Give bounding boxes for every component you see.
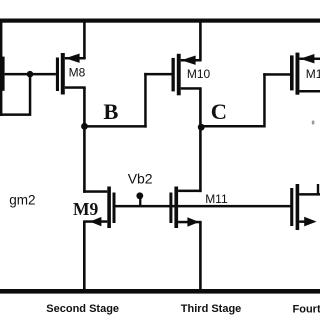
transistor M9 gate bar <box>113 193 116 224</box>
wire Vb2 stem <box>139 196 141 207</box>
wire M13 source horizontal <box>299 220 306 223</box>
wire node B horizontal right <box>85 125 147 128</box>
transistor M11 channel bar <box>174 187 178 229</box>
svg-text:M9: M9 <box>73 199 99 219</box>
transistor M12 gate bar (cropped at right) <box>290 55 294 90</box>
wire left edge vertical (cropped previous stage) <box>0 20 2 116</box>
wire M13 drain stub up (cropped node D) <box>317 184 319 195</box>
wire node A down (M7 drain connection) <box>29 74 32 113</box>
svg-text:M8: M8 <box>69 66 86 80</box>
wire node A to M8 gate <box>30 73 56 76</box>
svg-text:C: C <box>211 99 227 124</box>
wire M8 source horizontal <box>65 57 86 60</box>
node A junction dot <box>27 71 34 78</box>
svg-text:Third Stage: Third Stage <box>181 303 242 315</box>
wire M10 drain down to node C <box>199 88 202 127</box>
wire M8 drain horizontal <box>65 86 86 89</box>
node B junction dot <box>81 123 88 130</box>
label node C <box>211 99 227 124</box>
wire M9 source horizontal <box>83 220 107 223</box>
wire M7 gate to node A <box>5 73 30 76</box>
wire M9 drain up to node B <box>83 126 86 193</box>
label gm2 <box>9 193 35 208</box>
label M10 <box>187 67 211 81</box>
transistor M11 gate bar <box>169 193 172 224</box>
wire node B to M10 gate <box>144 73 171 76</box>
wire bias line Vb2 (M9 gate to M13 gate) <box>113 205 291 208</box>
transistor M10 gate bar <box>172 58 175 92</box>
svg-text:B: B <box>103 99 118 124</box>
M9 source arrow (NMOS, points out) <box>90 217 102 226</box>
M11 source arrow (NMOS) <box>187 217 199 226</box>
svg-text:Vb2: Vb2 <box>128 171 153 187</box>
label M8 <box>69 66 86 80</box>
node Vb2 dot <box>136 192 143 199</box>
wire bottom ground rail VSS <box>0 289 320 294</box>
transistor M13 gate bar <box>290 188 293 226</box>
wire M11 source horizontal <box>178 221 202 224</box>
wire M11 drain horizontal <box>178 190 202 193</box>
wire node C horizontal right <box>201 125 266 128</box>
label Third Stage <box>181 303 242 315</box>
wire M10 drain horizontal <box>181 87 202 90</box>
transistor M10 channel bar <box>177 54 181 96</box>
wire M10 source horizontal <box>181 59 202 62</box>
M13 source arrow (NMOS) <box>304 217 316 227</box>
svg-text:gm2: gm2 <box>9 193 35 208</box>
M12 source arrow (PMOS) <box>300 54 314 63</box>
node C junction dot <box>198 124 205 131</box>
wire top supply rail VDD <box>0 19 320 23</box>
wire M11 source down to VSS <box>199 222 202 290</box>
wire M8 drain down to node B <box>83 88 86 127</box>
label Second Stage <box>46 303 119 315</box>
label M11 <box>205 192 228 206</box>
transistor M7 channel bar (partial, cropped at left edge) <box>0 57 5 91</box>
transistor M9 channel bar (mirrored NMOS) <box>107 187 111 229</box>
svg-text:M11: M11 <box>205 192 228 206</box>
M8 source arrow (PMOS, points to channel) <box>65 54 79 63</box>
wire M9 source down to VSS <box>83 222 86 291</box>
wire M10 source up to VDD <box>199 21 202 60</box>
wire node B vertical up <box>144 73 147 128</box>
label M9 <box>73 199 99 219</box>
label M12 (clipped) <box>306 67 320 81</box>
wire M8 source up to VDD <box>83 21 86 58</box>
wire M13 drain horizontal <box>299 193 320 196</box>
svg-text:Fourth Stage: Fourth Stage <box>293 304 320 316</box>
wire node A leftward to edge <box>0 113 31 116</box>
transistor M8 channel bar <box>61 53 65 95</box>
wire M12 drain horizontal to edge <box>299 90 320 93</box>
svg-text:Second Stage: Second Stage <box>46 303 119 315</box>
transistor M12 channel bar <box>296 53 300 95</box>
wire M12 source horizontal to edge <box>299 58 320 61</box>
wire node C to M12 gate <box>263 73 290 76</box>
transistor M13 channel bar <box>296 184 300 230</box>
label node B <box>103 99 118 124</box>
wire M11 drain up to node C <box>199 127 202 192</box>
M10 source arrow (PMOS) <box>181 56 195 65</box>
transistor M8 gate bar <box>56 58 59 92</box>
artifact speck (cropped label fragment) <box>312 121 315 125</box>
svg-text:M10: M10 <box>187 67 211 81</box>
svg-text:M12: M12 <box>306 67 320 81</box>
label Vb2 <box>128 171 153 187</box>
wire node C vertical up <box>263 73 266 127</box>
wire M9 drain horizontal <box>83 190 107 193</box>
label Fourth Stage (clipped) <box>293 304 320 316</box>
